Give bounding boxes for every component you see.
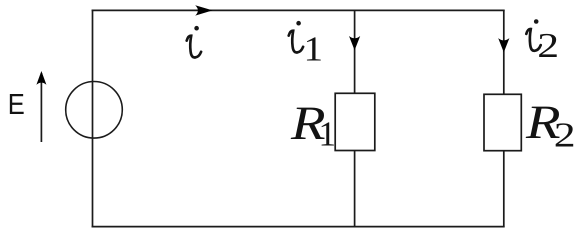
wire left vertical [92, 10, 94, 228]
wire R2 branch lower [503, 151, 505, 228]
wire top horizontal [92, 9, 505, 11]
wire R1 branch upper [354, 10, 356, 93]
arrowhead E reference (up) [36, 71, 46, 85]
svg-text:2: 2 [554, 115, 576, 154]
arrowhead current i2 (down) [498, 38, 509, 52]
label i [187, 26, 201, 58]
resistor R2 [484, 94, 521, 150]
source E circle [66, 82, 123, 139]
svg-text:1: 1 [319, 115, 337, 154]
resistor R1 [335, 93, 375, 150]
arrowhead current i1 (down) [349, 36, 360, 50]
arrowhead current i (rightward on top wire) [195, 5, 212, 15]
wire R1 branch lower [354, 151, 356, 227]
svg-text:2: 2 [537, 26, 559, 65]
wire bottom horizontal [92, 226, 505, 228]
svg-text:1: 1 [304, 29, 324, 68]
label i2 [526, 19, 540, 51]
svg-text:E: E [8, 89, 25, 121]
E reference arrow shaft [40, 73, 42, 142]
label i1 [289, 21, 303, 53]
wire R2 branch upper [503, 10, 505, 94]
